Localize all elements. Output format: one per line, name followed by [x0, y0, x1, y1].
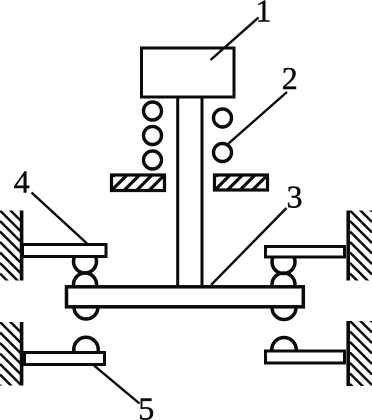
spring circle: left column top [144, 102, 162, 120]
wall: lower-right wall face line [346, 321, 350, 386]
shaft: vertical column right line [201, 97, 204, 287]
block 1: top mass block [142, 48, 235, 97]
shaft: vertical column left line [176, 97, 179, 287]
roller: upper-left roller pair, top circle (under bar 4 left) [74, 250, 97, 273]
roller: left roller on bar 5 [74, 337, 99, 362]
pad: right hatched seat outline [215, 175, 268, 190]
wall: upper-right fixed support hatching [350, 158, 372, 317]
bar 4 left: upper-left guide bar [23, 245, 107, 257]
pad: left hatched seat hatching [113, 27, 163, 227]
roller: upper-right roller pair, bottom circle (on beam 3) [272, 273, 295, 296]
wall: lower-left fixed support hatching [0, 280, 21, 420]
roller: right roller on bar 5 [272, 338, 297, 363]
roller: upper-left roller pair, bottom circle (on beam 3) [74, 273, 97, 296]
wall: lower-right fixed support hatching [350, 269, 372, 420]
leader line to label 4 [32, 193, 88, 244]
svg-text:1: 1 [256, 0, 272, 28]
spring circle: left column middle [144, 127, 162, 145]
leader line to label 1 [211, 18, 259, 61]
svg-text:3: 3 [287, 179, 303, 215]
wall: upper-left wall face line [20, 211, 24, 281]
bar 5 right: lower-right guide bar [266, 351, 345, 363]
spring circle 2: right column top [214, 109, 232, 127]
roller: right roller under beam 3 [272, 296, 296, 320]
leader line to label 5 [94, 366, 140, 404]
beam 3: horizontal slider beam [67, 287, 304, 307]
leader line to label 2 [229, 92, 288, 144]
wall: lower-left wall face line [20, 322, 24, 386]
spring circle: left column bottom [144, 151, 162, 169]
svg-text:5: 5 [138, 391, 154, 420]
roller: upper-right roller pair, top circle (under bar 4 right) [272, 251, 295, 274]
pad: right hatched seat hatching [216, 27, 266, 227]
roller: left roller under beam 3 [74, 295, 98, 319]
wall: upper-left fixed support hatching [0, 169, 21, 316]
svg-text:2: 2 [282, 60, 298, 96]
spring circle 2: right column bottom [214, 144, 232, 162]
svg-text:4: 4 [14, 164, 30, 200]
pad: left hatched seat outline [112, 175, 165, 191]
leader line to label 3 [211, 208, 287, 285]
bar 4 right: upper-right guide bar [266, 247, 345, 258]
bar 5 left: lower-left guide bar [25, 353, 105, 365]
wall: upper-right wall face line [346, 211, 350, 281]
